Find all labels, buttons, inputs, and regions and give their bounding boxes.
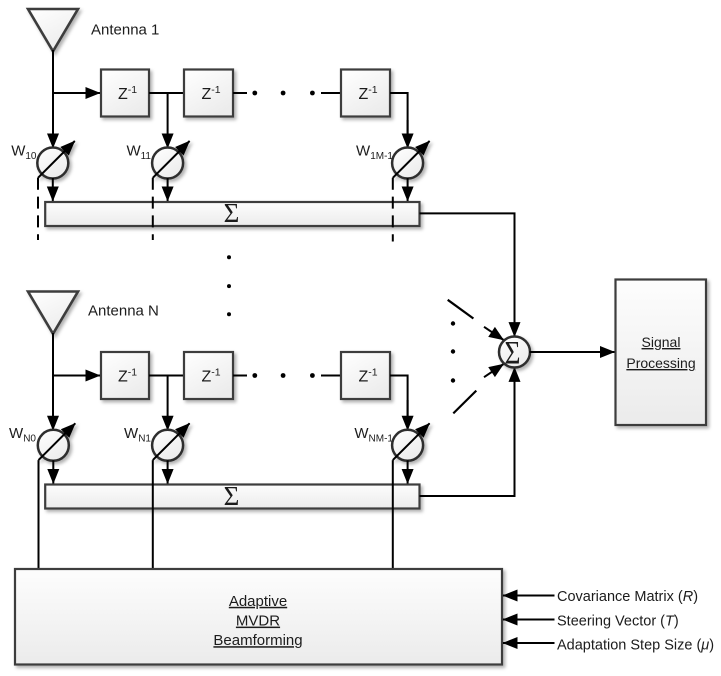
svg-text:WNM-1: WNM-1	[354, 425, 393, 445]
delay block ZN2	[184, 352, 233, 399]
wire WN1 to sumbar2	[167, 460, 169, 483]
control wire WNM-1 from beamformer	[392, 460, 394, 569]
delay block Z11	[101, 70, 149, 117]
control wire WN1 from beamformer	[152, 460, 154, 569]
wire Z12 to ellipsis	[233, 92, 247, 94]
delay block Z1M	[341, 70, 390, 117]
slash upper (other branches)	[448, 300, 474, 319]
wire sumbar1 to sum node	[420, 213, 515, 300]
svg-text:Covariance Matrix (R): Covariance Matrix (R)	[557, 589, 698, 605]
multiplier WN0	[38, 423, 76, 461]
svg-text:Adaptive: Adaptive	[229, 593, 287, 610]
wire W1M-1 to sumbar1	[407, 178, 409, 201]
svg-text:Antenna 1: Antenna 1	[91, 22, 159, 39]
svg-text:Processing: Processing	[626, 355, 695, 371]
svg-text:Beamforming: Beamforming	[213, 632, 302, 649]
svg-text:W1M-1: W1M-1	[356, 143, 393, 163]
delay block ZN1	[101, 352, 149, 399]
wire WN0 to sumbar2	[52, 460, 54, 483]
wire antennaN down to WN0	[52, 333, 54, 430]
wire ZN1 to ZN2	[149, 375, 184, 377]
svg-text:MVDR: MVDR	[236, 613, 280, 630]
arrow into sum node upper-left	[484, 327, 504, 340]
arrow into sum node lower-left	[484, 364, 504, 377]
dashed control wire W10	[37, 178, 39, 240]
signal processing box	[616, 280, 707, 426]
wire antenna1 branch to Z11	[52, 92, 100, 94]
summation bar 1	[45, 202, 419, 226]
wire sum node to signal processing	[530, 351, 615, 353]
wire W11 to sumbar1	[167, 178, 169, 201]
svg-text:W11: W11	[126, 143, 151, 163]
svg-text:Σ: Σ	[505, 336, 521, 372]
ellipsis dots row 1	[252, 91, 257, 96]
wire W10 to sumbar1	[52, 178, 54, 201]
svg-text:Signal: Signal	[642, 334, 681, 350]
arrow adaptation step size input	[503, 642, 555, 644]
multiplier WNM-1	[392, 423, 430, 461]
ellipsis dots row N	[252, 373, 257, 378]
multiplier W1M-1	[392, 141, 430, 179]
wire Z1M to W1M-1	[390, 93, 408, 147]
summation bar 2	[45, 485, 419, 509]
wire ellipsis to Z1M	[321, 92, 341, 94]
adaptive MVDR beamforming box	[15, 569, 502, 665]
wire junction down to WN1	[167, 376, 169, 431]
antenna N	[28, 292, 78, 334]
wire ZN2 to ellipsis	[233, 375, 247, 377]
vertical ellipsis between rows	[227, 255, 231, 259]
dashed control wire W1M-1	[392, 178, 394, 242]
delay block Z12	[184, 70, 233, 117]
wire ZNM to WNM-1	[390, 376, 408, 421]
svg-text:Antenna N: Antenna N	[88, 303, 159, 320]
wire junction down to W11	[167, 93, 169, 148]
wire ellipsis to ZNM	[321, 375, 341, 377]
delay block ZNM	[341, 352, 390, 399]
wire Z11 to Z12	[149, 92, 184, 94]
dashed control wire W11	[152, 178, 154, 240]
wire antennaN branch to ZN1	[52, 375, 100, 377]
svg-text:WN1: WN1	[124, 425, 151, 445]
multiplier WN1	[152, 423, 190, 461]
slash lower (other branches)	[453, 391, 476, 414]
svg-text:WN0: WN0	[9, 425, 36, 445]
wire sumbar2 to sum node	[420, 400, 515, 496]
arrow covariance matrix input	[503, 595, 555, 597]
multiplier W11	[152, 141, 190, 179]
wire antenna1 down to W10	[52, 50, 54, 148]
svg-text:W10: W10	[11, 143, 37, 163]
svg-text:Σ: Σ	[224, 481, 240, 511]
svg-text:Σ: Σ	[224, 198, 240, 228]
vertical ellipsis left of sum node	[451, 321, 455, 325]
antenna 1	[28, 9, 78, 51]
multiplier W10	[37, 141, 75, 179]
svg-text:Adaptation Step Size (μ): Adaptation Step Size (μ)	[557, 638, 714, 654]
control wire WN0 from beamformer	[38, 460, 40, 569]
arrow steering vector input	[503, 619, 555, 621]
wire WNM-1 to sumbar2	[407, 460, 409, 483]
svg-text:Steering Vector (T): Steering Vector (T)	[557, 614, 679, 630]
sum node	[499, 337, 530, 368]
